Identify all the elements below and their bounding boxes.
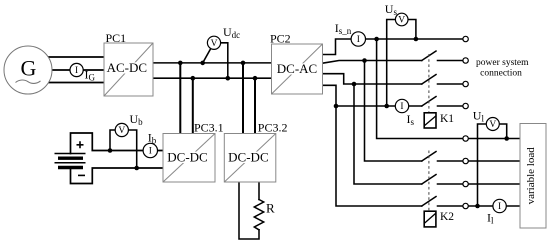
svg-text:DC-AC: DC-AC [277,61,317,76]
svg-text:R: R [266,201,275,216]
svg-text:V: V [398,16,405,26]
svg-text:I: I [498,202,501,212]
svg-text:K1: K1 [440,113,454,125]
svg-text:V: V [211,39,218,49]
svg-text:connection: connection [480,69,522,79]
svg-text:I: I [75,66,78,76]
svg-text:I: I [357,35,360,45]
svg-text:DC-DC: DC-DC [167,150,207,165]
svg-text:PC1: PC1 [106,31,127,45]
svg-text:PC2: PC2 [270,31,291,45]
svg-text:PC3.2: PC3.2 [258,121,288,135]
svg-text:K2: K2 [440,211,454,223]
svg-text:variable load: variable load [525,147,537,205]
svg-text:G: G [21,56,37,81]
svg-text:power system: power system [476,58,529,68]
svg-text:I: I [400,102,403,112]
svg-text:DC-DC: DC-DC [228,150,268,165]
svg-text:PC3.1: PC3.1 [194,121,224,135]
svg-text:I: I [149,147,152,157]
svg-text:V: V [489,120,496,130]
svg-text:AC-DC: AC-DC [107,60,147,75]
svg-text:V: V [118,126,125,136]
